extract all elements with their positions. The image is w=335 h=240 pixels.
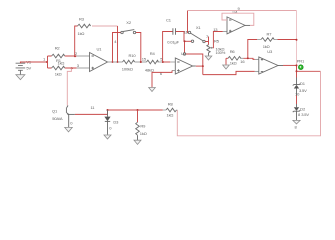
svg-text:PR1: PR1 (297, 58, 305, 63)
resistor R1 (48, 58, 90, 77)
svg-text:50A/A: 50A/A (52, 116, 63, 121)
svg-text:3.5V: 3.5V (299, 88, 307, 93)
resistor R6 (226, 49, 259, 65)
wire R10 to R4 (135, 61, 147, 63)
resistor R4 (145, 51, 159, 72)
svg-text:1kΩ: 1kΩ (58, 61, 65, 66)
op-amp U3 (259, 49, 283, 74)
top rail (188, 10, 297, 12)
resistor R2 (48, 46, 90, 58)
ground D3 (104, 135, 111, 139)
op-amp U2 (175, 51, 196, 74)
right rail to bottom (297, 70, 321, 72)
wire split vertical (47, 56, 49, 68)
big vertical right (296, 11, 298, 66)
junction R9 (137, 109, 139, 111)
potentiometer R5 (205, 27, 227, 60)
wire U2 plus to ground (172, 70, 175, 72)
ground U2 plus (149, 88, 156, 92)
svg-text:1kΩ: 1kΩ (55, 72, 62, 77)
switch X1 (183, 11, 205, 75)
wire battery to node 1 (20, 62, 47, 63)
node 3 junction (71, 67, 73, 69)
resistor R10 (122, 53, 137, 72)
svg-text:1kΩ: 1kΩ (78, 31, 85, 36)
battery V1 (16, 60, 32, 75)
ground R9 (134, 140, 141, 144)
wire U3 out (283, 64, 297, 66)
wire R4 to U2 (158, 61, 176, 63)
switch X2 (113, 20, 141, 62)
node 2 junction (74, 55, 76, 57)
zener D1 (293, 78, 307, 97)
junction R6 R7 (247, 57, 249, 59)
diode D3 (104, 110, 119, 135)
resistor R8 (138, 101, 178, 117)
probe PR1 (297, 58, 305, 69)
resistor R3 feedback (75, 16, 118, 62)
svg-text:100%: 100% (216, 50, 226, 55)
ground under battery (16, 75, 25, 80)
svg-text:3.5V: 3.5V (301, 112, 309, 117)
capacitor C1 (163, 18, 184, 62)
U4 feedback loop (222, 13, 254, 25)
zener D2 (293, 107, 310, 118)
op-amp U4 top (227, 6, 250, 34)
resistor R9 (136, 110, 147, 140)
wire U2 out junction (202, 65, 204, 67)
wire to U3 minus (203, 71, 255, 74)
wire between zeners (296, 89, 298, 96)
junction node 15 (140, 61, 142, 63)
junction feedback drop (117, 61, 119, 63)
svg-text:100kΩ: 100kΩ (122, 67, 133, 72)
svg-text:1kΩ: 1kΩ (167, 113, 174, 118)
svg-text:R10: R10 (129, 53, 137, 58)
ground Q1 (65, 127, 73, 131)
svg-text:1kΩ: 1kΩ (140, 131, 147, 136)
op-amp U1 (90, 46, 123, 71)
transistor Q1 (52, 68, 75, 127)
svg-text:1kΩ: 1kΩ (230, 60, 237, 65)
node 1 junction (46, 61, 48, 63)
junction D3 (107, 109, 109, 111)
wire zener to ground (296, 111, 298, 120)
resistor R7 (248, 31, 297, 58)
ground R6 (225, 58, 227, 65)
ground zeners (293, 120, 300, 124)
junction node 6 (162, 61, 164, 63)
base rail from Q1 (75, 110, 138, 114)
svg-text:5V: 5V (26, 65, 31, 70)
svg-text:48kΩ: 48kΩ (145, 67, 154, 72)
svg-text:0.01µF: 0.01µF (167, 40, 179, 45)
